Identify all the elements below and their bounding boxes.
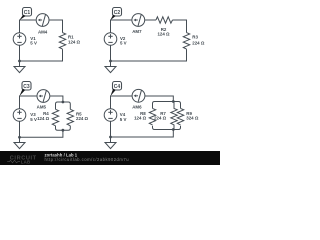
- node junction dot C1: [18, 60, 21, 63]
- svg-text:124 Ω: 124 Ω: [134, 116, 147, 121]
- wire V1 bottom to rail: [19, 45, 21, 66]
- svg-text:C2: C2: [114, 10, 121, 16]
- wire ammeter to parallel block: [145, 96, 173, 102]
- resistor R1: [59, 33, 80, 50]
- wire V2 bottom to rail: [110, 45, 112, 66]
- svg-text:5 V: 5 V: [120, 40, 127, 45]
- svg-text:5 V: 5 V: [30, 40, 37, 45]
- ground C3: [14, 143, 25, 149]
- node junction dot bottom of parallel C4: [172, 128, 175, 131]
- svg-text:124 Ω: 124 Ω: [68, 39, 81, 44]
- node junction dot C2: [109, 60, 112, 63]
- resistor R9: [177, 108, 199, 124]
- resistor R4: [37, 109, 59, 125]
- bottom bar of parallel R8 R7 R9: [153, 126, 181, 130]
- svg-text:R3: R3: [192, 35, 198, 40]
- ground C2: [105, 67, 116, 73]
- bottom bar of parallel R4 R5: [56, 126, 71, 130]
- wire R3 bottom to rail: [111, 49, 187, 61]
- voltage source V3: [13, 109, 37, 122]
- svg-text:5 V: 5 V: [30, 117, 37, 122]
- ammeter AM5: [37, 90, 50, 110]
- resistor R3: [183, 33, 205, 50]
- node junction dot top of parallel C4: [172, 100, 175, 103]
- wire R2 to resistor R3 top: [173, 20, 187, 33]
- node C1 callout box: [19, 8, 31, 21]
- svg-text:224 Ω: 224 Ω: [192, 40, 205, 45]
- voltage source V1: [13, 33, 37, 46]
- top bar of parallel R8 R7 R9: [153, 102, 181, 109]
- ammeter AM7: [132, 14, 145, 35]
- node C4 callout box: [110, 82, 121, 97]
- svg-text:AM7: AM7: [132, 29, 142, 34]
- wire parallel block to rail: [20, 130, 63, 137]
- voltage source V4: [104, 109, 126, 122]
- svg-text:AM4: AM4: [38, 30, 48, 35]
- wire parallel block to rail: [111, 130, 174, 138]
- voltage source V2: [104, 33, 126, 46]
- svg-text:C4: C4: [114, 84, 121, 90]
- node junction dot C4: [109, 136, 112, 139]
- resistor R7: [154, 102, 177, 130]
- svg-text:124 Ω: 124 Ω: [37, 116, 50, 121]
- svg-text:224 Ω: 224 Ω: [154, 116, 167, 121]
- wire ammeter to parallel block: [50, 96, 63, 102]
- wire V3 bottom to rail: [19, 121, 21, 142]
- svg-text:124 Ω: 124 Ω: [157, 32, 170, 37]
- ground C1: [14, 67, 25, 73]
- svg-text:http://circuitlab.com/c/2abk90: http://circuitlab.com/c/2abk902dm7u: [45, 157, 130, 162]
- svg-text:AM5: AM5: [37, 105, 47, 110]
- ammeter AM4: [36, 14, 49, 35]
- node C3 callout box: [19, 82, 31, 97]
- svg-text:324 Ω: 324 Ω: [186, 116, 199, 121]
- wire top-left corner to ammeter: [20, 20, 37, 33]
- svg-text:C3: C3: [23, 84, 30, 90]
- wire ammeter to resistor R1 top: [49, 20, 63, 33]
- svg-text:224 Ω: 224 Ω: [76, 116, 89, 121]
- svg-text:5 V: 5 V: [120, 117, 127, 122]
- svg-text:LAB: LAB: [21, 159, 31, 164]
- resistor R2: [156, 17, 172, 37]
- svg-text:C1: C1: [24, 10, 31, 16]
- resistor R8: [134, 108, 156, 124]
- ammeter AM6: [132, 89, 145, 109]
- wire top-left corner to ammeter AM6: [111, 96, 133, 109]
- svg-text:AM6: AM6: [132, 105, 142, 110]
- node junction dot bottom of parallel C3: [62, 129, 65, 132]
- wire top-left corner to ammeter AM7: [111, 20, 132, 33]
- resistor R5: [67, 109, 88, 125]
- node junction dot C3: [18, 136, 21, 139]
- wire R1 bottom to ground rail: [20, 49, 63, 61]
- wire top-left corner to ammeter AM5: [20, 96, 37, 109]
- wire V4 bottom to rail: [110, 121, 112, 142]
- ground C4: [105, 143, 116, 149]
- node junction dot top of parallel C3: [62, 101, 65, 104]
- top bar of parallel R4 R5: [56, 102, 71, 109]
- wire ammeter to resistor R2: [145, 19, 156, 21]
- node C2 callout box: [110, 8, 121, 21]
